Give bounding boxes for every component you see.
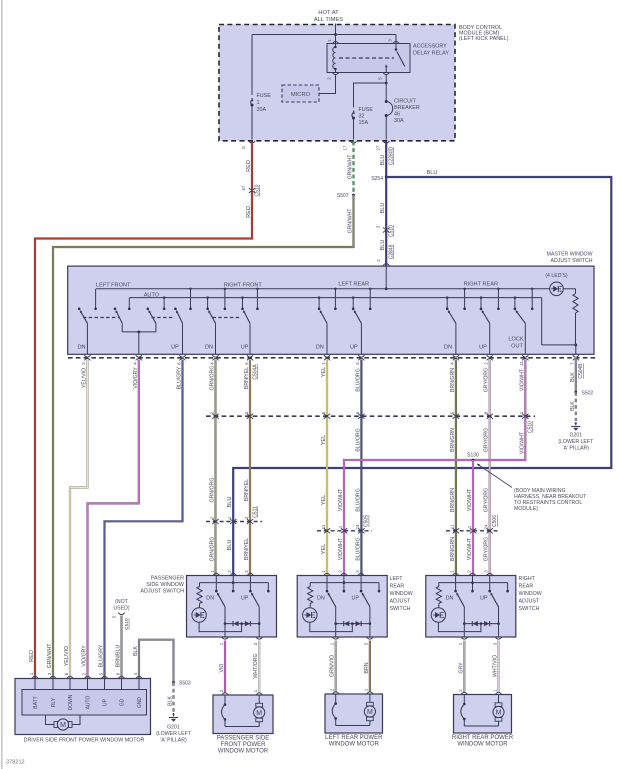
svg-text:GRY/ORG: GRY/ORG	[484, 368, 490, 392]
svg-text:WINDOW MOTOR: WINDOW MOTOR	[329, 741, 380, 747]
svg-text:C504A: C504A	[252, 364, 258, 380]
svg-text:GRY/ORG: GRY/ORG	[484, 488, 490, 512]
wire: GRY/ORG master to right rear switch UP	[489, 360, 491, 576]
svg-text:ADJUST: ADJUST	[519, 599, 540, 605]
svg-text:SWITCH: SWITCH	[390, 606, 411, 612]
accessory delay relay	[327, 44, 410, 73]
svg-text:YEL: YEL	[321, 495, 327, 506]
right rear DN switch	[448, 310, 456, 355]
svg-text:(LOWER LEFT: (LOWER LEFT	[156, 731, 192, 737]
wire: YEL master to left rear switch DN	[326, 360, 328, 576]
right rear window adjust switch diodes	[464, 621, 498, 626]
left rear power window motor box	[325, 694, 383, 733]
svg-text:ALL TIMES: ALL TIMES	[314, 17, 343, 23]
master switch pin 1 (YEL)	[321, 355, 330, 365]
svg-text:ADJUST SWITCH: ADJUST SWITCH	[140, 589, 184, 595]
fuse 1 30A	[251, 93, 272, 140]
svg-text:UP: UP	[352, 596, 360, 602]
svg-text:S507: S507	[337, 193, 349, 199]
master switch connector C504 dashed line	[68, 357, 596, 359]
right rear power window motor thermal breaker	[461, 695, 466, 727]
svg-text:DOWN: DOWN	[68, 694, 74, 710]
svg-text:RED: RED	[246, 160, 252, 172]
left rear window adjust switch input stubs	[326, 576, 381, 593]
wire: VIO passenger switch to motor	[224, 641, 226, 693]
svg-text:46: 46	[394, 112, 400, 118]
wire: BRN left rear switch to motor	[369, 641, 371, 692]
door connector C511 (passenger)	[206, 521, 262, 523]
svg-text:'A' PILLAR): 'A' PILLAR)	[160, 738, 187, 744]
bus 2	[129, 297, 541, 299]
svg-text:(NOT: (NOT	[115, 599, 129, 605]
HOT AT ALL TIMES label	[314, 10, 343, 23]
svg-text:RIGHT: RIGHT	[519, 576, 536, 582]
svg-text:YEL: YEL	[321, 435, 327, 446]
svg-text:WHT/ORG: WHT/ORG	[253, 653, 259, 678]
wire: BLK driver switch to S503	[139, 640, 174, 683]
svg-text:VIO/WHT: VIO/WHT	[467, 488, 473, 511]
driver switch pin 6 DOWN	[64, 672, 74, 710]
pivot contact stubs from bus 2	[128, 296, 516, 310]
svg-text:LEFT REAR: LEFT REAR	[338, 281, 369, 287]
power bus from pin 2	[385, 266, 388, 290]
wire: VIO/WHT S130 to right rear switch	[472, 460, 474, 576]
BLU drop labels	[227, 497, 233, 551]
passenger side window adjust switch label	[140, 576, 185, 595]
svg-text:32: 32	[359, 114, 365, 120]
svg-text:HOT AT: HOT AT	[318, 10, 339, 16]
svg-text:BREAKER: BREAKER	[394, 105, 420, 111]
svg-text:USED): USED)	[113, 606, 129, 612]
C510 pin 3	[244, 411, 253, 419]
svg-text:OUT: OUT	[511, 344, 523, 350]
svg-text:M: M	[256, 710, 262, 717]
passenger side window adjust switch diodes	[225, 621, 259, 626]
svg-text:MICRO: MICRO	[291, 92, 311, 98]
svg-text:C505: C505	[364, 515, 370, 527]
passenger side window adjust switch LED	[192, 604, 242, 632]
wire: GRN/WHT dashed from BCM fuse 32 to S507	[352, 142, 354, 196]
svg-text:BLK: BLK	[168, 696, 174, 706]
svg-text:BATT: BATT	[33, 696, 39, 708]
passenger side front power window motor label	[217, 735, 270, 754]
C506 pin 11	[450, 524, 459, 533]
relay linkage	[339, 57, 394, 59]
svg-text:DRIVER SIDE FRONT POWER WINDOW: DRIVER SIDE FRONT POWER WINDOW MOTOR	[24, 738, 145, 744]
svg-text:FRONT POWER: FRONT POWER	[221, 742, 267, 748]
svg-text:BLU/GRY: BLU/GRY	[177, 366, 183, 389]
svg-text:UP: UP	[103, 698, 109, 706]
right rear window adjust switch DN UP labels	[446, 596, 488, 602]
left front UP switch	[176, 310, 183, 355]
svg-text:BLK: BLK	[570, 401, 576, 411]
svg-text:GRY: GRY	[458, 662, 464, 674]
master switch pin 2 connector C2848	[376, 244, 395, 265]
master switch pin 6 (BLU/GRY)	[176, 355, 185, 365]
svg-text:DN: DN	[317, 596, 325, 602]
master switch pin 2 (GRY/ORG)	[484, 355, 493, 365]
svg-text:DN: DN	[316, 345, 324, 351]
svg-text:15A: 15A	[359, 120, 369, 126]
right rear window adjust switch input stubs	[454, 576, 509, 593]
svg-text:YEL: YEL	[321, 544, 327, 555]
svg-text:C510: C510	[389, 225, 395, 237]
C506 label	[492, 515, 498, 527]
svg-text:30A: 30A	[257, 107, 267, 113]
svg-text:BLU/GRY: BLU/GRY	[99, 644, 105, 667]
svg-text:VIO/WHT: VIO/WHT	[338, 488, 344, 511]
svg-text:SWITCH: SWITCH	[519, 606, 540, 612]
C510 pin 5	[321, 411, 330, 419]
svg-text:24: 24	[355, 524, 360, 529]
svg-text:RIGHT REAR POWER: RIGHT REAR POWER	[452, 735, 514, 741]
C510 pin 2	[209, 411, 218, 419]
svg-text:REAR: REAR	[390, 584, 405, 590]
svg-text:(LEFT KICK PANEL): (LEFT KICK PANEL)	[459, 36, 509, 42]
right rear window adjust switch box	[426, 576, 516, 638]
bare pivot dots left front	[78, 308, 177, 311]
svg-text:GRN/WHT: GRN/WHT	[348, 154, 354, 180]
C510 pin 6	[450, 411, 459, 419]
left rear window adjust switch diodes	[336, 621, 370, 626]
left front switch linkages	[83, 317, 174, 319]
svg-text:UP: UP	[171, 345, 179, 351]
connector C510 on BLU wire	[376, 225, 395, 237]
svg-text:BLU: BLU	[427, 170, 438, 176]
svg-text:BRN/GRN: BRN/GRN	[450, 428, 456, 452]
LED return to bus 2	[542, 298, 577, 355]
body control module (BCM) box	[219, 25, 455, 141]
wire: BLU power loop to passenger window switch	[233, 177, 611, 576]
left rear power window motor motor	[336, 694, 376, 726]
left rear window adjust switch LED	[303, 604, 353, 632]
svg-text:LEFT: LEFT	[390, 576, 404, 582]
left rear window adjust switch box	[297, 576, 387, 638]
left rear window adjust switch label	[390, 576, 413, 612]
wire: RED from BCM fuse 1 to driver switch BATT	[35, 142, 252, 679]
left rear window adjust switch bottom pins	[330, 637, 374, 645]
right rear window adjust switch internal bus	[439, 582, 508, 584]
wire: BRN/GRN master to right rear switch DN	[455, 360, 457, 576]
(NOT USED) stub and connector C510 pin 5	[111, 599, 130, 630]
left front AUTO switches	[116, 310, 156, 355]
passenger side front power window motor thermal breaker	[222, 695, 227, 727]
svg-text:S503: S503	[179, 681, 191, 687]
svg-text:24: 24	[484, 524, 489, 529]
svg-text:DN: DN	[206, 596, 214, 602]
svg-text:67: 67	[241, 185, 246, 190]
svg-text:RIGHT REAR: RIGHT REAR	[464, 281, 498, 287]
BCM exit pins	[241, 141, 395, 165]
svg-text:G201: G201	[569, 433, 582, 439]
svg-text:BLU/ORG: BLU/ORG	[355, 368, 361, 391]
master switch label	[547, 252, 593, 265]
svg-text:BLU/ORG: BLU/ORG	[355, 428, 361, 451]
LED resistor	[573, 289, 578, 345]
wire: relay output to fuse 32 and breaker	[354, 74, 388, 107]
svg-text:BLU: BLU	[380, 240, 386, 251]
wire: BLU/GRY master UP to driver switch	[105, 360, 183, 679]
wire: relay coil to micro	[319, 74, 336, 93]
svg-text:BLK: BLK	[570, 372, 576, 382]
ground G201 right	[558, 422, 594, 452]
master window adjust switch box	[68, 266, 594, 354]
LED indicator (4 LED's)	[545, 273, 568, 296]
svg-text:YEL: YEL	[321, 367, 327, 378]
svg-text:BRN/GRN: BRN/GRN	[450, 537, 456, 561]
driver motor	[46, 715, 81, 730]
svg-text:GRN/ORG: GRN/ORG	[210, 366, 216, 391]
driver switch pin 4 GND	[133, 672, 143, 708]
svg-text:GND: GND	[137, 697, 143, 709]
svg-text:DN: DN	[446, 596, 454, 602]
wire: BLK dashed S503 to G201	[172, 683, 174, 713]
connector C504 labels	[252, 363, 584, 380]
svg-text:GRY/ORG: GRY/ORG	[484, 428, 490, 452]
svg-text:BRN: BRN	[364, 662, 370, 673]
svg-text:YEL/VIO: YEL/VIO	[64, 646, 70, 666]
wire: BRN/YEL master to passenger switch UP	[249, 360, 251, 576]
svg-text:GRN/WHT: GRN/WHT	[47, 643, 53, 669]
svg-text:GRY/ORG: GRY/ORG	[484, 537, 490, 561]
C505 pin 24	[355, 524, 364, 533]
in-line connector C510 dashed line	[206, 415, 535, 417]
svg-text:PASSENGER: PASSENGER	[151, 576, 184, 582]
svg-text:VIO/GRY: VIO/GRY	[133, 367, 139, 389]
wire: VIO/GRY master AUTO to driver switch	[88, 360, 139, 679]
wire: VIO/WHT lockout feed to rear switches	[344, 360, 525, 576]
wire: WHT/ORG passenger switch to motor	[258, 641, 260, 693]
svg-text:BLU: BLU	[227, 540, 233, 551]
left rear DN switch	[320, 310, 327, 355]
left rear window adjust switch DN UP labels	[317, 596, 359, 602]
S130 callout note	[477, 464, 588, 512]
svg-text:DN: DN	[77, 345, 85, 351]
svg-text:BLU/ORG: BLU/ORG	[355, 488, 361, 511]
svg-text:UP: UP	[480, 596, 488, 602]
door connector C505 (left rear)	[317, 530, 372, 532]
right rear window adjust switch DN switch	[456, 592, 465, 637]
master switch pin 6 (BRN/YEL)	[244, 355, 253, 365]
right rear window adjust switch LED	[431, 604, 481, 632]
svg-text:YEL/VIO: YEL/VIO	[81, 368, 87, 388]
svg-text:BRN/GRN: BRN/GRN	[450, 368, 456, 392]
splice S254	[371, 176, 387, 182]
svg-text:'A' PILLAR): 'A' PILLAR)	[563, 446, 590, 452]
passenger side window adjust switch internal bus	[200, 582, 269, 584]
BCM label	[459, 25, 509, 42]
svg-text:C510: C510	[254, 184, 260, 196]
left rear power window motor label	[325, 735, 383, 748]
relay label	[413, 44, 449, 57]
master switch pin 11 (VIO/WHT)	[519, 355, 528, 366]
wire: BLU from BCM breaker to S254 and master switch	[385, 142, 387, 266]
svg-text:RLY: RLY	[51, 697, 57, 707]
C511 label	[252, 506, 258, 518]
wire: GRY right rear switch to motor	[463, 641, 465, 693]
splice S130	[467, 453, 479, 462]
svg-text:FUSE: FUSE	[359, 107, 374, 113]
svg-text:SIDE WINDOW: SIDE WINDOW	[146, 582, 185, 588]
svg-text:C510: C510	[124, 618, 130, 630]
right rear window adjust switch top pins	[449, 570, 492, 576]
svg-text:BLU: BLU	[380, 203, 386, 214]
svg-text:ADJUST SWITCH: ADJUST SWITCH	[551, 258, 593, 264]
master switch pin 4 (BRN/GRN)	[450, 355, 459, 365]
svg-text:378212: 378212	[6, 760, 25, 766]
svg-text:11: 11	[450, 524, 455, 529]
BLU label on horizontal run	[427, 170, 438, 176]
C505 pin 1	[338, 525, 347, 533]
svg-text:PASSENGER SIDE: PASSENGER SIDE	[217, 735, 270, 741]
relay contact	[385, 44, 405, 73]
wire: YEL/VIO master DN to driver switch	[70, 360, 87, 679]
svg-text:S254: S254	[371, 176, 383, 182]
svg-text:UP: UP	[241, 345, 249, 351]
svg-text:FUSE: FUSE	[257, 93, 272, 99]
wire: GRN/ORG master to passenger switch DN	[214, 360, 216, 576]
right rear power window motor motor	[464, 695, 504, 727]
passenger side window adjust switch top pins	[210, 570, 253, 576]
master switch pin 5 (BLU/ORG)	[355, 355, 364, 365]
driver switch pin 3 RLY	[47, 672, 57, 707]
page left edge	[1, 0, 3, 769]
C511 pin 1	[227, 516, 236, 524]
left rear window adjust switch DN switch	[328, 592, 337, 637]
relay pin symbols and numbers	[327, 39, 400, 80]
LOCK OUT label	[508, 337, 524, 350]
svg-text:DN: DN	[205, 345, 213, 351]
right rear window adjust switch UP switch	[490, 592, 500, 637]
C510 pin 1	[519, 411, 528, 419]
right front switch linkage	[213, 317, 242, 319]
svg-text:WINDOW MOTOR: WINDOW MOTOR	[457, 741, 508, 747]
svg-text:S130: S130	[467, 453, 479, 459]
driver switch pin 2 AUTO	[81, 672, 91, 709]
C505 label	[364, 515, 370, 527]
svg-text:VIO/WHT: VIO/WHT	[467, 537, 473, 560]
passenger side window adjust switch box	[187, 576, 277, 638]
right front UP switch	[243, 310, 250, 355]
svg-text:GRN/VIO: GRN/VIO	[330, 655, 336, 677]
left front DN switch	[80, 310, 88, 355]
svg-text:RED: RED	[29, 650, 35, 662]
svg-text:VIO/GRY: VIO/GRY	[82, 645, 88, 667]
right rear window adjust switch label	[519, 576, 542, 612]
wire: GRN/VIO left rear switch to motor	[335, 641, 337, 692]
door connector C506 (right rear)	[446, 530, 500, 532]
driver side front power window motor box	[15, 679, 151, 735]
svg-text:AUTO: AUTO	[144, 292, 160, 298]
C511 pin 3	[244, 516, 253, 524]
svg-text:30A: 30A	[394, 118, 404, 124]
svg-text:BLU: BLU	[227, 497, 233, 508]
C510 pin 6	[355, 411, 364, 419]
wire: BLU/ORG master to left rear switch UP	[360, 360, 362, 576]
svg-text:BLK: BLK	[133, 646, 139, 656]
right rear window adjust switch resistor	[436, 583, 441, 604]
passenger side front power window motor pins	[219, 689, 262, 695]
master switch pin 3 (YEL/VIO)	[81, 355, 90, 365]
svg-text:LEFT FRONT: LEFT FRONT	[96, 282, 131, 288]
svg-text:ADJUST: ADJUST	[390, 599, 411, 605]
svg-text:GD: GD	[120, 698, 126, 706]
svg-text:UP: UP	[241, 596, 249, 602]
svg-text:WINDOW: WINDOW	[390, 591, 413, 597]
svg-text:G201: G201	[167, 725, 180, 731]
wire: BLK dashed S502 to G201	[575, 392, 577, 421]
wire: BLK master switch to S502	[575, 357, 577, 393]
svg-text:DN: DN	[444, 345, 452, 351]
C506 pin 24	[484, 524, 493, 533]
C506 pin 1	[467, 525, 476, 533]
driver switch pin 5 UP	[98, 672, 108, 706]
left rear UP switch	[354, 310, 362, 355]
driver switch pin 8 GD	[115, 672, 125, 706]
svg-text:S502: S502	[582, 391, 594, 397]
svg-text:C511: C511	[252, 506, 258, 518]
svg-text:(4 LED'S): (4 LED'S)	[545, 273, 568, 279]
left rear power window motor thermal breaker	[332, 694, 337, 726]
C505 pin 11	[321, 524, 330, 533]
svg-text:C510: C510	[528, 421, 534, 433]
svg-text:BRN/BLU: BRN/BLU	[116, 645, 122, 668]
svg-text:RED: RED	[246, 206, 252, 218]
svg-text:RIGHT FRONT: RIGHT FRONT	[224, 282, 263, 288]
splice S507	[337, 154, 355, 199]
circuit breaker 46 30A	[385, 99, 420, 140]
svg-text:GRN/ORG: GRN/ORG	[210, 478, 216, 503]
ground G201 left	[156, 713, 192, 744]
driver switch pin 1 BATT	[29, 672, 39, 708]
passenger side window adjust switch bottom pins	[219, 637, 262, 645]
right rear power window motor label	[452, 735, 514, 748]
connector C510 on RED wire	[29, 160, 260, 662]
svg-text:BLU/ORG: BLU/ORG	[355, 537, 361, 560]
C510 label	[528, 421, 534, 433]
svg-text:UP: UP	[350, 345, 358, 351]
passenger side window adjust switch DN switch	[217, 592, 226, 637]
right rear power window motor pins	[458, 689, 502, 695]
svg-text:VIO/WHT: VIO/WHT	[519, 368, 525, 391]
svg-text:17: 17	[342, 145, 347, 150]
svg-text:MODULE): MODULE)	[514, 506, 538, 512]
right front DN switch	[208, 310, 215, 355]
svg-text:M: M	[60, 722, 66, 729]
svg-text:WINDOW: WINDOW	[519, 591, 542, 597]
svg-text:WINDOW MOTOR: WINDOW MOTOR	[218, 749, 269, 755]
C511 pin 2	[209, 516, 218, 524]
svg-text:1: 1	[257, 100, 260, 106]
splice S503	[172, 681, 191, 687]
C510 pin 8	[484, 411, 493, 419]
svg-text:CIRCUIT: CIRCUIT	[394, 99, 417, 105]
passenger side window adjust switch UP switch	[251, 592, 261, 637]
svg-text:UP: UP	[479, 345, 487, 351]
svg-text:27: 27	[375, 145, 380, 150]
relay coil	[333, 44, 337, 73]
svg-text:VIO: VIO	[219, 664, 225, 673]
svg-text:M: M	[367, 709, 373, 716]
right rear window adjust switch bottom pins	[458, 637, 502, 645]
svg-text:BRN/YEL: BRN/YEL	[244, 479, 250, 501]
svg-text:VIO/WHT: VIO/WHT	[338, 537, 344, 560]
lockout switch	[516, 310, 526, 355]
svg-text:WHT/VIO: WHT/VIO	[493, 655, 499, 677]
right rear UP switch	[482, 310, 490, 355]
BLU wire labels	[380, 155, 386, 251]
svg-text:DELAY RELAY: DELAY RELAY	[413, 51, 449, 57]
